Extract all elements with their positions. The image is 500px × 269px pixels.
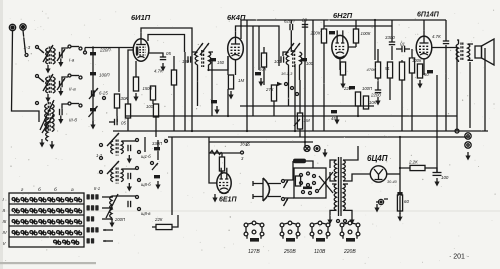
svg-text:· 201 ·: · 201 · xyxy=(449,254,469,261)
tuning arrow L7 xyxy=(42,114,54,133)
wire column 192 xyxy=(191,66,193,131)
capacitor IFT1 right xyxy=(210,58,216,61)
matrix contact row 2 col 6 xyxy=(57,208,64,213)
matrix contact row 4 col 8 xyxy=(74,230,81,235)
tuning arrow IFT2 a xyxy=(285,43,294,55)
capacitor 50 xyxy=(427,70,433,73)
wire IFT1 tops xyxy=(192,51,213,53)
svg-text:4.7К: 4.7К xyxy=(432,34,441,39)
matrix contact row 3 col 8 xyxy=(74,219,81,224)
wire resistor down xyxy=(116,108,118,116)
svg-text:6Ц4П: 6Ц4П xyxy=(367,154,388,163)
wire primary taps xyxy=(330,160,337,181)
ground 100uF xyxy=(434,178,439,187)
svg-text:6Н2П: 6Н2П xyxy=(333,11,353,20)
resistor V3 cathode xyxy=(340,62,345,75)
junction b3 xyxy=(294,130,296,132)
capacitor C row III xyxy=(60,109,63,115)
matrix contact row 3 col 4 xyxy=(39,219,46,224)
coil L4 xyxy=(53,77,55,93)
wire osc III top xyxy=(112,195,136,197)
svg-text:6И1П: 6И1П xyxy=(131,13,151,22)
wire V2 plate bus xyxy=(236,26,280,52)
wire 330P leads xyxy=(157,140,159,160)
speaker xyxy=(475,39,494,65)
matrix contact row 1 col 3 xyxy=(30,197,37,202)
wire detector load xyxy=(294,64,296,131)
capacitor 220P xyxy=(90,52,96,55)
diode detector arrow xyxy=(277,82,283,86)
wire V1 left down xyxy=(128,50,133,104)
matrix contact row 3 col 6 xyxy=(57,219,64,224)
wire tone cap leads xyxy=(445,20,447,131)
voltage selector pin xyxy=(300,174,303,177)
resistor 10К tone xyxy=(363,96,368,109)
wire 220K column xyxy=(323,20,325,131)
wire IFT2 left leg xyxy=(278,52,280,66)
wire 1500 down xyxy=(152,100,154,104)
ground L3 xyxy=(45,94,50,103)
coil secondary HV lower xyxy=(343,184,345,210)
wire IFT2 top left xyxy=(283,52,289,56)
capacitor 3300 xyxy=(389,42,395,45)
wire 27K down xyxy=(273,101,275,116)
phono jack 2 xyxy=(465,142,471,148)
resistor 2.2К filter xyxy=(410,165,425,170)
tuning arrow IFT2 b xyxy=(291,43,300,55)
capacitor padder III xyxy=(128,201,131,207)
wire HV to rectifier xyxy=(343,174,370,181)
resistor V4 cathode xyxy=(417,64,422,78)
ground V1 cathode xyxy=(133,93,138,102)
core OT xyxy=(461,43,463,62)
svg-text:110В: 110В xyxy=(314,249,326,255)
wire bus y137 xyxy=(168,136,470,138)
pilot lamp terminal crossed xyxy=(304,146,310,152)
wire column 305 xyxy=(304,20,306,146)
matrix contact row 1 col 4 xyxy=(39,197,46,202)
ground cap 05 xyxy=(160,63,165,72)
coil IFT2 secondary xyxy=(300,52,302,65)
svg-text:51: 51 xyxy=(385,66,390,71)
wire bus y26 right xyxy=(324,25,392,27)
power transformer core xyxy=(339,157,342,216)
switch contact I top xyxy=(36,46,39,49)
tuning arrow IFT1 a xyxy=(194,43,203,55)
wire heater winding a xyxy=(343,146,358,160)
arrow band 5 xyxy=(103,240,113,242)
resistor 27К xyxy=(271,85,276,101)
wire v3 cath down xyxy=(342,75,344,80)
arrow band 1 xyxy=(102,196,113,198)
ground V3 cathode xyxy=(340,80,345,89)
svg-text:470К: 470К xyxy=(367,67,377,72)
antenna terminal 2 xyxy=(20,24,26,30)
ground osc III xyxy=(109,219,114,228)
wire 100p down xyxy=(357,106,359,116)
junction HT xyxy=(399,167,401,169)
svg-text:01: 01 xyxy=(400,42,405,47)
selector bar xyxy=(303,187,312,190)
wire osc bus xyxy=(171,137,173,215)
matrix contact row 2 col 7 xyxy=(66,208,73,213)
junction b4 xyxy=(227,115,229,117)
tube V4 6П14П output xyxy=(416,30,432,59)
coil IFT1 primary xyxy=(195,52,197,65)
tuning arrow L5 xyxy=(40,100,54,130)
svg-text:100: 100 xyxy=(146,104,154,109)
wire column 185 xyxy=(184,52,186,131)
wire 620P leads xyxy=(290,20,292,52)
coil osc II primary xyxy=(111,169,113,182)
switch contact III right xyxy=(79,104,82,107)
coil OT primary xyxy=(456,44,458,60)
svg-text:05: 05 xyxy=(166,51,171,56)
matrix contact row 2 col 3 xyxy=(30,208,37,213)
matrix contact row 4 col 2 xyxy=(21,230,28,235)
capacitor 100 electrolytic xyxy=(433,173,442,176)
svg-text:1б-1,3: 1б-1,3 xyxy=(281,71,293,76)
resistor 22К xyxy=(156,224,172,229)
resistor V2 cathode xyxy=(228,75,233,89)
band name label 4 xyxy=(87,227,99,232)
capacitor 220П xyxy=(349,86,355,89)
ground L7 xyxy=(49,141,54,150)
contact osc col a xyxy=(165,140,168,143)
ground 2200 xyxy=(375,97,380,106)
capacitor IFT1 left xyxy=(188,56,191,62)
svg-text:10К: 10К xyxy=(259,67,267,72)
svg-text:6П14П: 6П14П xyxy=(417,12,440,19)
coil osc I secondary xyxy=(121,141,123,154)
coil L5 xyxy=(45,104,47,132)
svg-text:4.7К: 4.7К xyxy=(154,69,163,74)
resistor 470К V4 grid xyxy=(375,62,380,78)
capacitor padder I xyxy=(128,145,131,151)
voltage selector pin xyxy=(300,182,303,185)
svg-text:II-а: II-а xyxy=(69,87,76,92)
switch contact I-a left xyxy=(68,45,71,48)
coil osc II secondary xyxy=(121,169,123,182)
wire HT column xyxy=(399,137,401,214)
wire IFT1 legs down xyxy=(198,65,209,106)
tube V5 6Е1П tuning eye xyxy=(217,168,231,194)
switch contact 1-3 xyxy=(25,54,28,57)
wire OT primary leads xyxy=(457,40,459,62)
arrow band 4 xyxy=(103,229,113,231)
wire grid leak down xyxy=(127,118,129,131)
tube V2 6К4П IF amplifier xyxy=(228,31,244,59)
voltage diagram 110В xyxy=(310,221,330,242)
switch contact II-a left xyxy=(68,74,71,77)
wire V1 cathode xyxy=(135,61,137,77)
matrix contact row 1 col 2 xyxy=(21,197,28,202)
wire osc contacts up xyxy=(144,137,146,152)
matrix contact row 1 col 6 xyxy=(57,197,64,202)
capacitor 2200 xyxy=(375,90,381,93)
wire eye left xyxy=(209,153,217,183)
contact О2 xyxy=(296,93,299,96)
core osc II xyxy=(116,168,118,184)
wire eye resistor leads xyxy=(221,153,223,174)
wire eye top xyxy=(209,152,240,154)
resistor V1 grid leak xyxy=(125,104,130,118)
svg-text:а: а xyxy=(71,188,74,193)
wire cap left xyxy=(109,121,115,123)
wire column 212 xyxy=(211,60,213,116)
svg-text:б: б xyxy=(54,187,57,193)
wire column 375 xyxy=(374,20,376,60)
arrow band 3 xyxy=(102,218,113,220)
wire V1 plate bus top xyxy=(141,28,192,51)
wire sec bottom xyxy=(343,210,352,216)
capacitor V2 grid gnd xyxy=(211,100,217,103)
wire AVC bus y116 xyxy=(126,115,457,117)
wire primary lower taps xyxy=(330,184,337,216)
matrix contact row 2 col 8 xyxy=(74,208,81,213)
junction b6 xyxy=(399,136,401,138)
contact osc I left2 xyxy=(100,157,103,160)
wire plug to switch xyxy=(268,184,281,197)
wire 05 to AVC xyxy=(116,116,118,122)
contact power switch b xyxy=(282,198,285,201)
svg-text:3300: 3300 xyxy=(385,35,395,40)
matrix contact row 2 col 5 xyxy=(48,208,55,213)
wire V1 screen bus xyxy=(148,35,185,53)
svg-text:30К: 30К xyxy=(121,96,129,101)
svg-text:I-а: I-а xyxy=(69,58,75,63)
voltage diagram 250В xyxy=(280,221,300,242)
core IFT1 xyxy=(202,50,204,67)
trimmer C2 xyxy=(60,81,63,87)
capacitor 100P xyxy=(90,72,96,75)
matrix contact row 4 col 1 xyxy=(12,230,19,235)
junction b7 xyxy=(304,141,306,143)
wire 3300 leads xyxy=(391,20,393,60)
contact near trimmer xyxy=(103,97,106,100)
svg-text:б: б xyxy=(38,187,41,193)
terminal circled dot left xyxy=(376,199,388,205)
ground input column xyxy=(90,121,95,130)
wire filter xyxy=(400,168,437,172)
wire osc I right xyxy=(122,140,136,142)
svg-text:6Е1П: 6Е1П xyxy=(219,197,237,204)
coil L7 lower xyxy=(46,119,48,141)
resistor 30К xyxy=(114,94,119,108)
junction IFT1 sec xyxy=(207,69,209,71)
wire V3 cathode xyxy=(339,59,341,70)
wire contact to bus xyxy=(84,48,86,52)
ground 60 xyxy=(397,213,402,222)
matrix contact row 3 col 7 xyxy=(66,219,73,224)
svg-text:100К: 100К xyxy=(412,58,422,63)
svg-text:1500: 1500 xyxy=(143,86,153,91)
svg-text:щ1-б: щ1-б xyxy=(141,154,151,159)
wire column 253 xyxy=(252,26,254,116)
switch contact I-a right xyxy=(79,47,82,50)
resistor zigzag 1М eye xyxy=(210,151,222,155)
switch contact II-a right xyxy=(79,76,82,79)
coil osc III xyxy=(110,196,112,218)
matrix contact row 5 col 3 xyxy=(72,240,79,245)
wire bus y131 xyxy=(113,130,488,132)
ground V4 cathode xyxy=(417,80,422,89)
svg-text:30-40: 30-40 xyxy=(387,180,398,184)
matrix contact row 2 col 1 xyxy=(12,208,19,213)
wire rectifier out xyxy=(387,173,400,175)
svg-text:27К: 27К xyxy=(265,87,274,92)
matrix contact row 1 col 8 xyxy=(74,197,81,202)
junction b5 xyxy=(357,115,359,117)
capacitor V3 input xyxy=(329,31,335,34)
voltage diagram 127В xyxy=(244,221,264,242)
ground phono xyxy=(465,152,470,161)
switch contact III left xyxy=(68,102,71,105)
wire IFT2 legs xyxy=(289,65,300,106)
svg-text:100П: 100П xyxy=(99,73,110,78)
trimmer arrow 2 xyxy=(89,106,98,117)
resistor 220К V3 grid xyxy=(321,29,326,43)
wire V4 top to bus xyxy=(423,20,425,30)
trimmer C1 xyxy=(60,52,63,58)
contact osc III right2 xyxy=(138,208,141,211)
core IFT2 xyxy=(293,50,295,67)
svg-text:2.2К: 2.2К xyxy=(408,160,418,165)
wire input column down xyxy=(92,48,94,129)
pot wiper arrow xyxy=(294,119,300,126)
voltage selector pin xyxy=(307,172,310,175)
capacitor padder II xyxy=(128,173,131,179)
matrix contact row 3 col 3 xyxy=(30,219,37,224)
matrix contact row 4 col 5 xyxy=(48,230,55,235)
wire column 437 xyxy=(436,75,438,131)
wire IFT1 left leg xyxy=(191,51,193,66)
ground L5 xyxy=(39,139,44,148)
svg-text:100: 100 xyxy=(441,175,449,180)
matrix contact row 1 col 7 xyxy=(66,197,73,202)
coil IFT1 secondary xyxy=(209,52,211,65)
tuning arrow osc III xyxy=(106,194,118,218)
band name label 1 xyxy=(87,194,99,199)
wire 01 leads xyxy=(396,48,410,50)
wire 51 down xyxy=(389,78,391,100)
wire C2 top xyxy=(62,77,68,81)
wire C1 top xyxy=(62,48,68,52)
wire V2 grid return xyxy=(227,56,229,116)
wire V4 plate to OT xyxy=(432,47,457,49)
lamp terminal a xyxy=(337,220,340,223)
svg-text:щII-б: щII-б xyxy=(141,182,151,187)
phono jack 1 xyxy=(465,133,471,139)
wire grid bus to V1 xyxy=(85,47,133,49)
faint scan line mid-bottom xyxy=(0,211,500,212)
wire speaker return xyxy=(469,62,471,128)
fuse xyxy=(293,159,306,164)
wire OT sec leads xyxy=(468,44,474,60)
voltage selector pin xyxy=(307,184,310,187)
wire 100K to plate xyxy=(348,20,356,47)
resistor 100П out xyxy=(399,62,404,80)
wire B+ top bus xyxy=(241,20,446,39)
svg-text:620П: 620П xyxy=(284,19,295,24)
trimmer arrow 6-25 xyxy=(89,88,98,99)
switch arm II xyxy=(38,77,44,82)
svg-text:100П: 100П xyxy=(362,86,373,91)
matrix contact row 4 col 4 xyxy=(39,230,46,235)
matrix contact row 4 col 7 xyxy=(66,230,73,235)
ground AVC cap xyxy=(258,78,263,87)
ground C2 xyxy=(58,88,63,97)
wire stopper column xyxy=(411,49,413,131)
contact detector b xyxy=(291,87,294,90)
ground C1 xyxy=(58,59,63,68)
junction ring on bus xyxy=(455,129,459,133)
voltage selector pin xyxy=(316,190,319,193)
resistor eye grid xyxy=(219,157,224,171)
core L5/L6 xyxy=(48,102,50,132)
switch contact III top xyxy=(36,102,39,105)
svg-text:05: 05 xyxy=(121,121,126,126)
svg-text:220: 220 xyxy=(343,86,352,91)
coil osc I primary xyxy=(111,141,113,154)
switch contact to bus I xyxy=(84,51,87,54)
svg-text:100К: 100К xyxy=(361,31,371,36)
capacitor .05 input xyxy=(115,119,118,125)
capacitor 01 coupling xyxy=(402,46,405,52)
wire IFT2 sec down xyxy=(299,80,301,113)
wire column 259 xyxy=(258,26,260,70)
tuning arrow L3 xyxy=(43,74,53,91)
resistor V1 cathode 1К xyxy=(133,77,138,91)
wire C3 top xyxy=(62,104,68,109)
svg-text:220В: 220В xyxy=(343,249,356,255)
matrix contact row 3 col 1 xyxy=(12,219,19,224)
coil secondary HV upper xyxy=(343,160,345,181)
svg-text:200П: 200П xyxy=(114,217,126,222)
ground C3 xyxy=(58,116,63,125)
wire bus y106 xyxy=(240,105,374,107)
svg-text:100: 100 xyxy=(274,59,282,64)
coil L1 xyxy=(46,48,48,64)
ground 45 xyxy=(334,116,339,125)
wire I-a xyxy=(71,46,79,48)
junction 375 xyxy=(374,19,376,21)
wire selector cross xyxy=(319,172,333,193)
matrix contact row 4 col 6 xyxy=(57,230,64,235)
resistor 4.7К xyxy=(171,70,176,85)
svg-text:1б: 1б xyxy=(245,142,250,147)
band name label 2 xyxy=(87,205,99,210)
contact detector a xyxy=(285,83,288,86)
matrix contact row 2 col 4 xyxy=(39,208,46,213)
switch arm power a xyxy=(284,180,289,188)
capacitor 330П xyxy=(154,147,160,150)
capacitor input 3 xyxy=(90,108,96,111)
wire OT down xyxy=(456,48,458,132)
contact osc I right2 xyxy=(138,151,141,154)
ground primary xyxy=(327,216,332,225)
wire column 437 lower xyxy=(436,131,438,172)
svg-text:II-1: II-1 xyxy=(94,186,100,191)
matrix contact row 2 col 2 xyxy=(21,208,28,213)
contact eye grid xyxy=(241,151,244,154)
wire antenna 1 down to coil III xyxy=(12,31,40,122)
voltage selector pin xyxy=(313,175,316,178)
wire fuse to selector xyxy=(306,161,313,168)
resistor 100К V3 plate xyxy=(353,29,358,43)
resistor 60 xyxy=(397,195,402,211)
ground near V2 xyxy=(214,106,219,115)
